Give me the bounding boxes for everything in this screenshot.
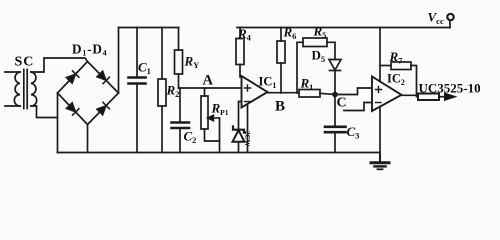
diode D2 (top-right edge, points to right corner)	[97, 71, 110, 84]
IC2 minus sign	[376, 102, 382, 104]
resistor R6	[277, 41, 285, 63]
resistor R4	[236, 39, 244, 65]
wire: secondary bottom to left corner column	[31, 106, 58, 118]
svg-text:R1: R1	[300, 76, 314, 93]
wire: RP1 wiper tail down	[219, 118, 221, 153]
right winding bumps	[31, 72, 37, 106]
wire: C3 bottom to rail	[334, 133, 336, 152]
svg-text:Vcc: Vcc	[428, 10, 444, 27]
wire: top-right rail	[237, 27, 450, 29]
svg-text:IC2: IC2	[387, 72, 405, 88]
svg-text:IC1: IC1	[259, 75, 277, 91]
wire: R7 right down to output	[411, 66, 417, 97]
wire: R5 left end down to node B wire	[297, 42, 303, 93]
wire: bridge left corner down to bottom rail	[57, 93, 59, 153]
wire: R4 bottom to node A line	[239, 65, 241, 78]
wire: R4 top riser	[239, 28, 241, 39]
IC1 minus sign	[245, 101, 251, 103]
svg-text:R7: R7	[389, 49, 404, 66]
capacitor C2	[172, 123, 190, 129]
capacitor C1	[129, 78, 146, 84]
wire: node C down to C3	[334, 95, 336, 126]
wire: secondary top to bridge top corner	[31, 58, 88, 72]
output connector box	[418, 94, 439, 101]
svg-text:D5: D5	[312, 48, 326, 65]
wire: bridge bottom corner down to bottom rail	[87, 125, 89, 153]
wire: R6 bottom to node B wire	[280, 63, 282, 93]
wire: R6 top riser	[280, 28, 282, 42]
wire: C2 bottom to rail	[179, 129, 181, 153]
wire: RY top riser	[178, 28, 180, 51]
potentiometer RP1 box	[201, 96, 208, 129]
capacitor C3	[325, 127, 346, 132]
op-amp IC2	[372, 77, 402, 112]
wire: C1 bottom to rail	[136, 85, 138, 153]
svg-text:R4: R4	[237, 26, 252, 43]
op-amp IC1	[242, 76, 268, 108]
diode D1 (top-left edge, points to top corner)	[66, 71, 79, 84]
diode D4 (bottom-right edge, points to right corner)	[97, 102, 110, 115]
bridge diamond edges	[58, 62, 119, 125]
wire: IC1 ground pin	[247, 104, 249, 152]
svg-text:C: C	[337, 96, 347, 111]
transformer T1	[5, 70, 37, 109]
svg-text:C3: C3	[347, 124, 360, 141]
svg-text:R2: R2	[166, 83, 180, 100]
svg-text:C1: C1	[138, 60, 151, 77]
wire: RP1 bottom hook	[205, 129, 220, 141]
left winding stubs	[5, 72, 20, 106]
wire: IC2 output	[402, 94, 419, 96]
svg-text:R5: R5	[313, 24, 327, 41]
zener diode DW	[233, 102, 245, 153]
Vcc terminal circle	[447, 14, 453, 20]
wire: node A horizontal line	[179, 87, 242, 89]
resistor RY	[175, 50, 183, 74]
resistor R2	[158, 79, 166, 106]
IC2 plus sign	[376, 87, 382, 93]
svg-text:UC3525-10: UC3525-10	[419, 81, 481, 96]
Vcc terminal riser	[449, 21, 451, 28]
RP1 wiper arrow	[208, 115, 220, 121]
wire: C2 top riser	[179, 88, 181, 122]
bottom rail	[58, 152, 381, 154]
ground symbol	[371, 153, 389, 170]
wire: IC1 inverting input from zener	[239, 101, 242, 103]
resistor R5	[303, 38, 327, 47]
wire: RP1 top riser	[204, 88, 206, 96]
wire: bridge right corner up to top rail	[118, 28, 120, 94]
core lines	[24, 70, 27, 109]
wire: C1 top riser	[136, 28, 138, 77]
svg-text:A: A	[203, 73, 214, 89]
node C junction dot	[332, 92, 338, 98]
svg-text:RY: RY	[184, 54, 200, 71]
wire: IC2 ground pin	[379, 107, 381, 154]
resistor R7	[391, 62, 411, 70]
wire: R2 top riser	[161, 28, 163, 80]
output arrow	[439, 96, 445, 98]
wire: R2 bottom to rail	[161, 106, 163, 153]
wire: node C to IC2 plus input	[335, 88, 372, 95]
resistor R1	[299, 90, 320, 98]
wire: RY bottom to node A line	[178, 74, 180, 88]
wire: IC2 Vcc pin riser	[379, 28, 381, 82]
IC1 plus sign	[245, 85, 251, 91]
diode D3 (bottom-left edge, points to bottom corner)	[66, 102, 79, 115]
svg-text:SC: SC	[15, 55, 35, 70]
left winding bumps	[14, 72, 20, 106]
wire: R7 left connection	[380, 65, 391, 67]
wire: R1 right to node C	[320, 93, 335, 94]
wire: R5 right end to D5	[327, 42, 335, 59]
wire: top-left rail	[119, 27, 179, 29]
wire: IC2 minus input wire	[344, 103, 372, 111]
svg-text:D1-D4: D1-D4	[72, 42, 107, 58]
svg-text:C2: C2	[184, 129, 197, 146]
wire: IC1 output to R1	[268, 92, 300, 94]
diode D5 (points down)	[329, 60, 341, 95]
svg-text:B: B	[275, 99, 285, 115]
